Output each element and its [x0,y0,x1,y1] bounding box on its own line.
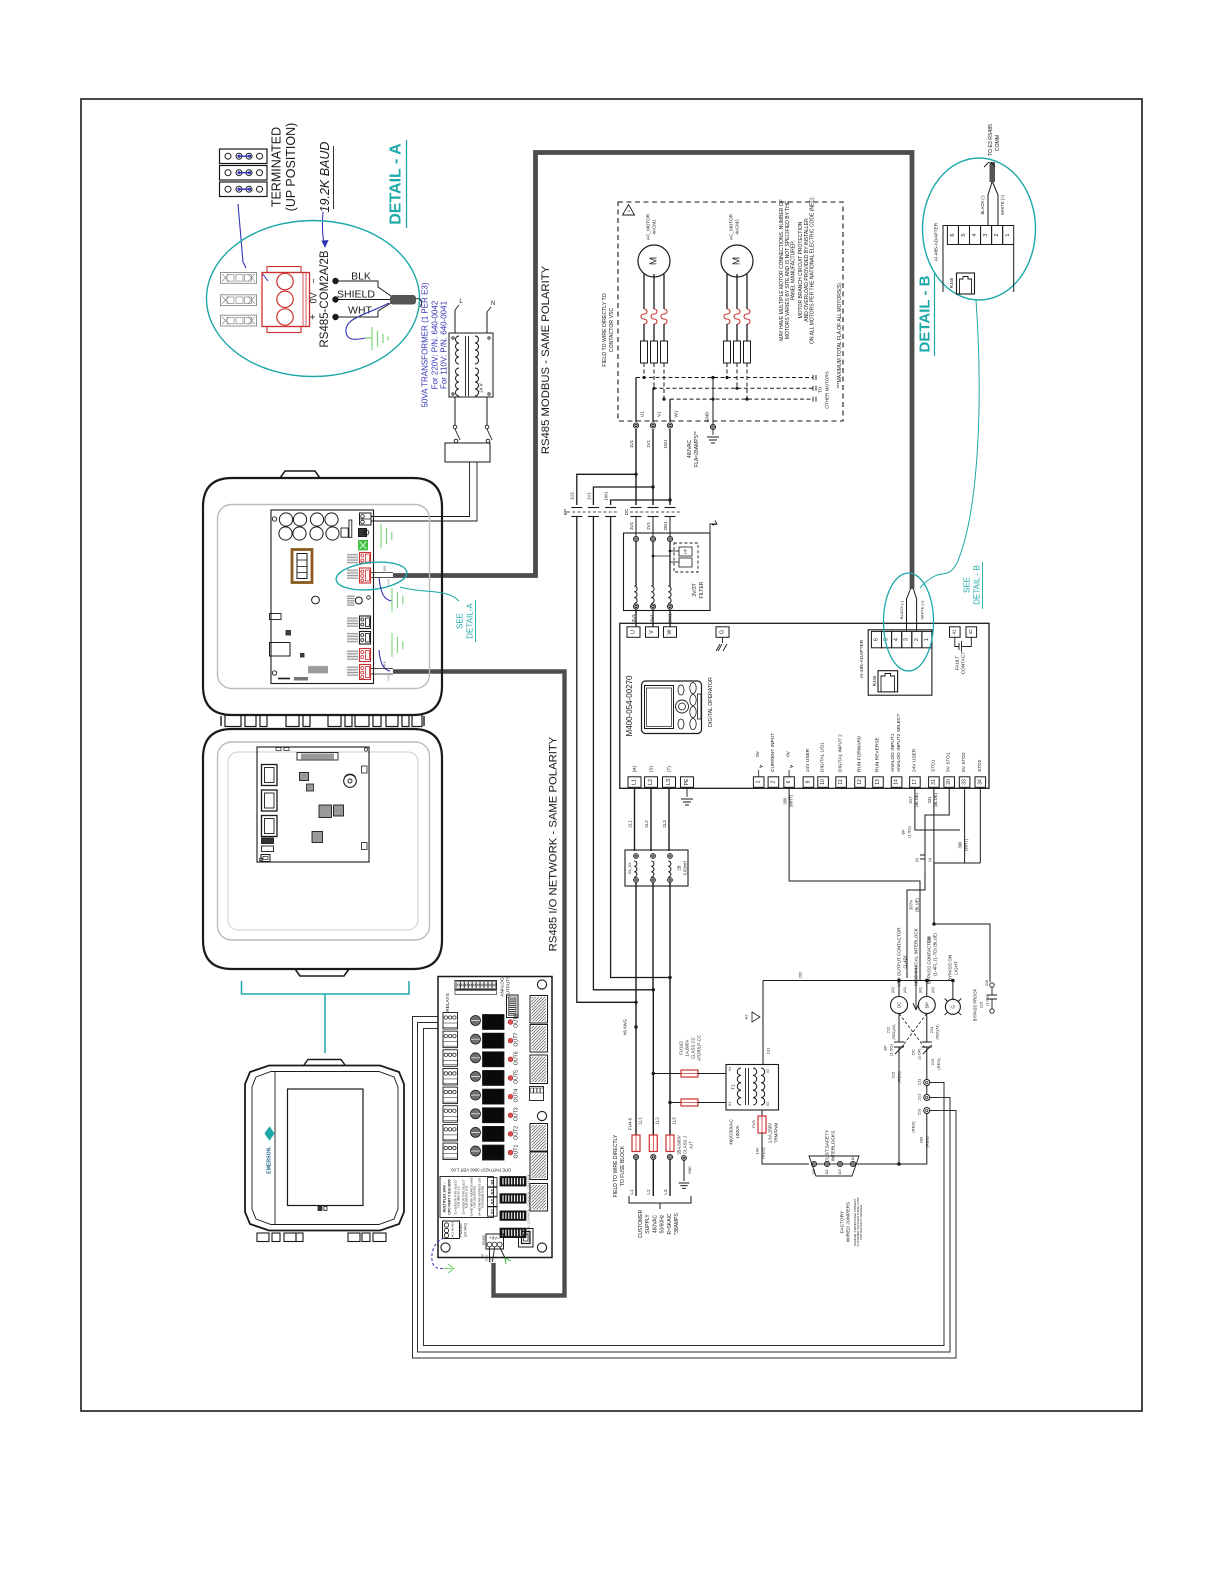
svg-text:*38AMPS: *38AMPS [674,1213,680,1235]
DETAIL-B ellipse [923,158,1036,300]
wires from +0V- down to thick bus [489,1247,491,1262]
svg-text:3: 3 [983,233,989,236]
svg-text:FAULT: FAULT [955,656,961,671]
terminal 10 [818,777,829,788]
svg-text:FU4-6: FU4-6 [628,1117,633,1130]
svg-text:OUT1: OUT1 [514,1145,520,1159]
three connectors left [262,765,278,786]
svg-text:1V1: 1V1 [646,440,651,448]
blue leader tick into blocks [262,273,268,281]
svg-text:(2): (2) [915,858,919,862]
svg-text:STO1: STO1 [930,759,936,772]
relay channel OUT5 [443,1068,458,1085]
svg-text:AC1 0V AC2: AC1 0V AC2 [451,1221,455,1237]
bottom info table [440,1177,494,1218]
svg-text:T1: T1 [731,1084,736,1090]
svg-text:X1: X1 [766,1102,770,1106]
svg-text:+0V−: +0V− [489,1236,500,1241]
svg-text:1U1: 1U1 [629,439,634,448]
wires from RELAYS out to left loop [413,1017,957,1359]
svg-text:AC_MOTOR: AC_MOTOR [729,213,734,240]
svg-text:CONTACTOR VSC: CONTACTOR VSC [609,308,615,353]
svg-text:4: 4 [894,638,900,641]
svg-text:101: 101 [766,1047,771,1054]
svg-text:4ACM1: 4ACM1 [652,219,657,235]
relay board outline [438,977,552,1258]
pin comb + red connector COM1 [347,554,358,564]
svg-text:460/230VAC: 460/230VAC [729,1118,734,1144]
svg-text:5V STO2: 5V STO2 [961,752,967,772]
svg-text:DETAIL - B: DETAIL - B [917,275,934,352]
dip switch top [507,995,519,1018]
coil rail [763,980,953,982]
svg-text:24 V: 24 V [479,383,484,392]
svg-text:AI-485-ADAPTER: AI-485-ADAPTER [859,639,865,678]
svg-text:1: 1 [1005,233,1011,236]
svg-text:211: 211 [917,1078,922,1085]
svg-text:(WHT): (WHT) [964,838,969,851]
svg-text:CPC PART # 810-3065: CPC PART # 810-3065 [448,1179,452,1214]
svg-text:12: 12 [857,779,863,785]
svg-text:10: 10 [820,779,826,785]
svg-text:WIRED JUMPERS: WIRED JUMPERS [846,1202,852,1242]
wire 396 from terminal 33 [934,787,965,924]
svg-text:19.2K BAUD: 19.2K BAUD [318,142,332,213]
svg-text:6: 6 [950,233,956,236]
svg-text:(BLUE): (BLUE) [914,793,919,807]
svg-text:RS485: RS485 [482,1235,486,1245]
svg-text:13: 13 [875,779,881,785]
svg-text:1.6A,250V: 1.6A,250V [768,1123,773,1144]
svg-text:TO E3 RS485: TO E3 RS485 [988,124,994,156]
svg-text:33: 33 [962,779,968,785]
svg-text:331: 331 [927,796,932,804]
svg-text:BLK: BLK [383,566,387,571]
jumper blocks (terminated up position) [220,149,268,164]
svg-text:(BLUE): (BLUE) [915,898,920,912]
GND lead [711,398,714,401]
motor lead 737 [736,274,738,309]
svg-text:DC: DC [624,508,629,515]
svg-text:+: + [308,314,319,320]
svg-text:BLACK (-): BLACK (-) [899,600,904,619]
svg-text:EMERSON.: EMERSON. [267,1146,273,1174]
svg-text:9: 9 [805,780,811,783]
svg-text:(A2): (A2) [891,987,895,993]
relay channel OUT4 [443,1087,458,1104]
svg-text:PROTECTION IF DESIRED.: PROTECTION IF DESIRED. [859,1204,863,1240]
svg-text:DETAIL-A: DETAIL-A [466,603,475,639]
svg-text:460VAC: 460VAC [652,1214,658,1233]
board bottom small marks [278,678,290,680]
svg-text:S1: S1 [490,1208,495,1214]
detail-A red connector (RS485-COM2A/2B) [262,273,310,327]
svg-text:BYPASS CONTACTOR: BYPASS CONTACTOR [927,935,932,984]
detail-A wire clamp terminal blocks [221,273,257,284]
svg-text:35A,600V: 35A,600V [677,1135,682,1154]
svg-text:(R): (R) [632,765,637,772]
chips [300,773,309,781]
svg-text:SHIELD: SHIELD [387,672,391,681]
terminal 13 [873,777,884,788]
svg-text:L1: L1 [632,779,638,785]
svg-text:U1: U1 [640,411,645,417]
split wires [988,182,992,226]
svg-text:(1-4D): (1-4D) [903,955,908,968]
RS485 I/O thick bus wire [393,672,565,1296]
svg-text:1L2: 1L2 [655,1117,660,1125]
detail-B adapter terminals [947,226,958,245]
adapter body outline [943,226,1014,293]
terminal 17 [910,777,921,788]
buzzer [344,775,357,788]
svg-text:OUT6: OUT6 [514,1051,520,1065]
E3 enclosure 1 (outer case) [203,478,442,715]
svg-text:2W1: 2W1 [663,521,668,531]
power input connector (to 50VA transformer) [360,513,372,525]
svg-text:L2: L2 [648,779,654,785]
svg-text:2L1: 2L1 [628,820,633,828]
display/processor board [257,747,369,862]
svg-text:2: 2 [994,233,1000,236]
terminal 9 [803,777,814,788]
transformer 50VA symbol [449,333,493,397]
svg-text:OUT3: OUT3 [514,1107,520,1121]
fault contact terminals 41 42 [950,627,961,638]
ground at G [722,637,724,643]
svg-text:(24 VAC): (24 VAC) [464,1223,468,1238]
svg-text:42: 42 [968,629,974,635]
svg-text:FIELD TO WIRE DIRECTLY TO: FIELD TO WIRE DIRECTLY TO [602,293,608,366]
svg-text:(RED): (RED) [925,1136,930,1148]
dashed mechanical interlock X [899,1014,925,1049]
svg-text:BP: BP [883,1045,888,1051]
svg-text:FLA=28AMPS**: FLA=28AMPS** [694,431,700,467]
svg-text:ATDR/LP-CC: ATDR/LP-CC [697,1035,702,1061]
green connector [359,541,368,550]
svg-text:BL_XX: BL_XX [628,862,632,874]
svg-text:***MAXIMUM TOTAL FLA OF ALL MO: ***MAXIMUM TOTAL FLA OF ALL MOTORS(S). [837,282,843,389]
svg-text:31: 31 [931,779,937,785]
svg-text:5V STO1: 5V STO1 [946,752,952,772]
svg-text:BLK: BLK [383,661,387,666]
detail-A ellipse [207,221,420,377]
svg-text:RUN REVERSE: RUN REVERSE [875,737,881,772]
svg-text:2V1: 2V1 [646,522,651,530]
svg-text:FACTORY: FACTORY [840,1210,846,1233]
svg-text:396: 396 [958,841,963,849]
svg-text:209: 209 [919,1136,924,1143]
svg-text:−: − [309,278,319,283]
terminal 2 [768,777,779,788]
fuses FU4-6 [632,1135,640,1152]
svg-text:34: 34 [977,779,983,785]
motor feeder columns [635,429,637,505]
small black component [359,529,367,537]
svg-text:4ACM2: 4ACM2 [735,219,740,235]
svg-text:1 2 3 4 5 6 7 8: 1 2 3 4 5 6 7 8 [528,1174,531,1190]
DC coil (VFD output contactor) [891,997,908,1014]
svg-text:DC: DC [911,1049,916,1055]
power 24vac terminal [443,1221,460,1239]
svg-text:CLASS CC: CLASS CC [691,1037,696,1059]
svg-text:3: 3 [904,638,910,641]
S1-S4 cells [488,1178,498,1187]
svg-text:ANALOG INPUT2 SELECT: ANALOG INPUT2 SELECT [896,714,902,772]
svg-text:DETAIL - A: DETAIL - A [388,143,405,225]
svg-text:DIGITAL INPUT 2: DIGITAL INPUT 2 [838,734,844,772]
svg-text:17: 17 [912,779,918,785]
VFD L columns down to reactor [634,787,636,851]
svg-text:215: 215 [891,1071,896,1078]
svg-text:RS485 I/O NETWORK - SAME POLAR: RS485 I/O NETWORK - SAME POLARITY [548,736,560,951]
svg-text:2: 2 [914,638,920,641]
motor field wiring dashed box [618,202,843,421]
mounting ears [257,1233,269,1242]
svg-text:R=5KAIC: R=5KAIC [667,1213,673,1234]
SEE DETAIL - B leader [920,300,979,588]
svg-text:BLACK (-): BLACK (-) [980,195,985,215]
green ground below ellipse [392,588,403,612]
cable stub [990,162,996,182]
svg-text:L2: L2 [646,1189,651,1195]
svg-text:OUT8: OUT8 [514,1014,520,1028]
filter coils [634,586,637,603]
svg-text:DIGITAL OPERATOR: DIGITAL OPERATOR [708,677,714,727]
terminal 6 [784,777,795,788]
RS485 MODBUS thick bus wire [393,153,912,590]
svg-text:G: G [720,630,726,634]
svg-text:CURRENT INPUT: CURRENT INPUT [770,733,776,772]
svg-text:306: 306 [783,797,788,805]
blue wire lower [379,650,390,671]
relay channel OUT3 [443,1106,458,1123]
svg-text:6: 6 [873,638,879,641]
board capacitors [279,513,292,526]
hinge hardware [225,715,241,727]
svg-text:RS485 MODBUS - SAME POLARITY: RS485 MODBUS - SAME POLARITY [540,265,552,454]
svg-text:ANALOG INPUT1: ANALOG INPUT1 [890,733,896,772]
detail-B RJ45 [957,273,975,294]
svg-text:G: G [950,1005,955,1009]
svg-text:210: 210 [917,1108,922,1115]
svg-text:L3: L3 [666,779,672,785]
svg-text:GND: GND [688,1166,692,1174]
svg-text:1W1: 1W1 [663,439,668,449]
svg-text:460VAC: 460VAC [687,439,693,458]
display unit outer [245,1066,404,1231]
svg-text:DIGITAL 1/O1: DIGITAL 1/O1 [820,742,826,772]
DC columns into filter [635,517,637,537]
svg-text:114: 114 [851,1155,855,1160]
motor lead 727 [726,274,728,309]
svg-text:(RED)(A2): (RED)(A2) [892,1025,896,1040]
fuse FU1 [681,1070,698,1077]
supply columns below jogs [635,1002,637,1135]
svg-text:FILTER: FILTER [699,581,705,598]
relay channel OUT6 [443,1050,458,1067]
svg-text:M: M [649,257,660,265]
motor lead 654 [653,274,655,309]
ground stub right of L3 [683,1160,685,1181]
lower connector group: 2 black 2 red [347,617,358,627]
svg-text:216: 216 [985,980,989,986]
wire 331 from terminal 31 [934,787,990,982]
svg-text:(A1): (A1) [903,987,907,993]
leader line from jumper blocks [238,204,246,268]
svg-text:50VA TRANSFORMER (1 PER E3): 50VA TRANSFORMER (1 PER E3) [421,282,430,407]
svg-text:24V USER: 24V USER [805,748,811,772]
wire from FU3 to interlocks [762,1133,809,1164]
svg-text:RUN FORWARD: RUN FORWARD [857,735,863,772]
svg-text:213: 213 [930,1058,935,1065]
svg-text:AI-485-ADAPTER: AI-485-ADAPTER [934,222,940,261]
svg-text:#8 AWG: #8 AWG [623,1018,628,1035]
svg-text:(1-4F), (1-7D): (1-4F), (1-7D) [933,947,938,976]
svg-text:RJ45: RJ45 [949,277,954,288]
svg-text:H4: H4 [728,1067,732,1071]
+0V- RS485 terminal [486,1234,504,1249]
svg-text:CUSTOMER: CUSTOMER [638,1209,644,1238]
mounting holes [537,980,546,989]
U1 V1 W1 terminals below dashed box [635,378,637,423]
enclosure 2 inner lid [218,742,430,940]
junction box to E3 [445,443,490,462]
svg-text:OUT4: OUT4 [514,1089,520,1103]
bypass columns long verticals [577,517,636,1003]
PE ground [686,787,688,797]
svg-text:(S): (S) [649,766,654,772]
svg-text:2L3: 2L3 [662,820,667,828]
svg-text:1: 1 [924,638,930,641]
svg-text:S2: S2 [490,1198,495,1204]
3V/3T filter box [624,533,711,611]
svg-text:1U1: 1U1 [570,491,575,500]
svg-text:(T): (T) [667,766,672,772]
svg-text:0V: 0V [786,750,792,757]
wires below coils with aux contacts [898,1014,900,1043]
svg-text:(RED): (RED) [911,1121,916,1133]
svg-text:BP: BP [924,1002,929,1008]
svg-text:L1: L1 [629,1189,634,1195]
svg-text:214: 214 [929,1026,934,1033]
svg-text:(RED): (RED) [897,1071,902,1083]
filter ground hook [710,521,717,534]
relay channel OUT1 [443,1143,458,1160]
warning triangle 1 [623,205,635,216]
wire stubs from lower red connector to I/O thick bus [371,668,393,670]
wire 306 from terminal 6 [789,787,920,980]
svg-text:SHIELD: SHIELD [337,289,375,301]
svg-text:1W1: 1W1 [604,491,609,501]
svg-text:N: N [491,301,495,307]
svg-text:SUPPLY: SUPPLY [645,1214,651,1234]
svg-text:(BLUE): (BLUE) [933,793,938,807]
svg-text:S3: S3 [490,1189,495,1195]
small components [262,838,274,844]
enclosure 2 bottom tab [295,969,349,976]
svg-text:(A2): (A2) [919,987,923,993]
svg-text:2U1: 2U1 [629,521,634,530]
svg-text:DPE PART#237-3066 VER 1.00: DPE PART#237-3066 VER 1.00 [450,1168,510,1173]
svg-text:212: 212 [886,1026,891,1033]
blue wire from COM2 down to ground [379,578,392,601]
fuse FU2 [681,1099,698,1106]
svg-text:(1-5G): (1-5G) [907,826,912,838]
svg-text:ANALOG: ANALOG [500,977,505,997]
svg-text:SHIELD: SHIELD [387,576,391,585]
VFD output terminals U V W G [627,627,640,638]
svg-text:FOR INPUTS 1-8: FOR INPUTS 1-8 [457,1186,461,1207]
svg-text:3U1: 3U1 [631,613,636,622]
svg-text:202: 202 [798,971,803,978]
blue dashed wire to ground from power terminal [432,1238,444,1269]
green ground near green connector [381,524,392,548]
svg-text:DETAIL - B: DETAIL - B [973,565,982,605]
terminal 34 [975,777,986,788]
transformer primary leads L N [454,310,456,333]
svg-text:212: 212 [917,1093,922,1100]
motor lead 747 [746,274,748,309]
svg-text:BP: BP [901,829,906,835]
svg-text:OTHER MOTORS: OTHER MOTORS [825,371,830,408]
RJ45 jack [878,671,898,692]
wires to E3 board connector [371,462,470,517]
svg-text:LIGHT: LIGHT [954,961,959,975]
J8 485 port [519,1229,534,1248]
svg-text:S4: S4 [490,1179,495,1185]
svg-text:105: 105 [812,1169,816,1175]
svg-text:6: 6 [786,780,792,783]
svg-text:U: U [631,630,637,634]
mechanical interlock arrow [913,968,919,1010]
svg-text:RS485-COM2A/2B: RS485-COM2A/2B [319,250,331,347]
svg-text:317: 317 [908,796,913,804]
svg-text:(RED): (RED) [936,1058,941,1070]
svg-text:FU3: FU3 [752,1120,756,1127]
border frame [81,99,1142,1411]
svg-text:0.82mH: 0.82mH [683,861,688,876]
green ground mid lower [392,633,403,657]
tiny right-edge parts [362,766,368,773]
svg-text:ANT: ANT [482,1253,485,1258]
enclosure 1 inner lid [218,505,430,689]
svg-text:113: 113 [838,1169,842,1174]
svg-text:(1): (1) [928,858,932,862]
SEE DETAIL-A leader [400,587,459,601]
svg-text:1L1: 1L1 [638,1117,643,1125]
wire stubs from COM2 to thick bus [371,572,393,574]
svg-text:OUT5: OUT5 [514,1070,520,1084]
svg-text:50/60Hz: 50/60Hz [660,1214,666,1233]
digital operator drawing [642,681,702,734]
svg-text:PANEL MANUFACTURER.: PANEL MANUFACTURER. [791,240,797,300]
svg-text:M: M [732,257,743,265]
svg-text:190: 190 [755,1147,760,1154]
teal highlight ellipse on COM2 [335,559,408,593]
svg-text:307A: 307A [909,900,914,910]
board middle parts [312,596,320,604]
svg-text:DC: DC [897,1002,902,1008]
svg-text:COMM: COMM [995,135,1001,151]
svg-text:WHT: WHT [348,305,372,317]
svg-text:GND: GND [490,1257,493,1263]
board connector strip top [301,753,334,760]
svg-text:(BLUE): (BLUE) [933,933,938,947]
T1 transformer [726,1065,779,1111]
svg-text:100VA: 100VA [735,1124,740,1138]
relay channel OUT7 [443,1031,458,1048]
